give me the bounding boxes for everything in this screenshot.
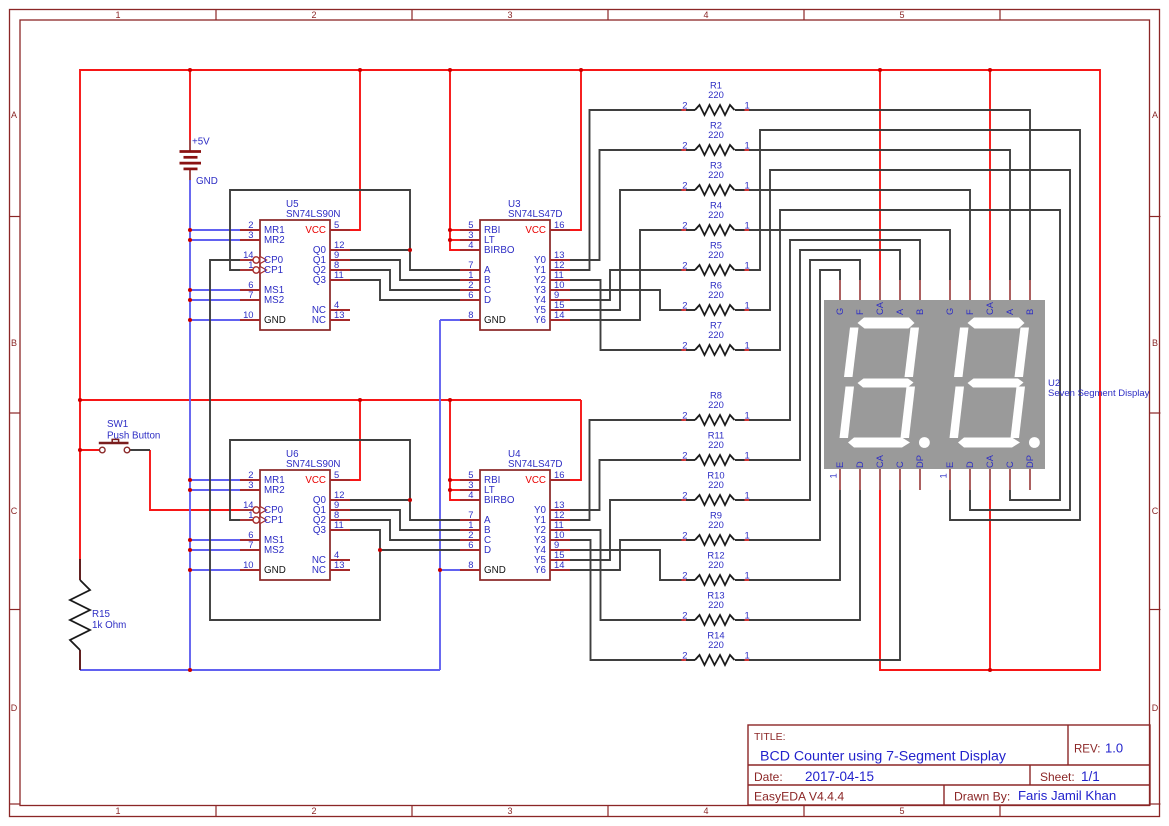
wire R3 to seg F right xyxy=(745,190,970,280)
pin 16 VCC of U3 xyxy=(525,219,570,236)
svg-text:Faris Jamil Khan: Faris Jamil Khan xyxy=(1018,788,1116,803)
svg-text:4: 4 xyxy=(703,10,708,20)
svg-text:1: 1 xyxy=(745,450,750,461)
svg-text:1.0: 1.0 xyxy=(1105,741,1123,756)
svg-text:220: 220 xyxy=(708,329,724,340)
svg-text:D: D xyxy=(11,703,18,713)
svg-text:220: 220 xyxy=(708,559,724,570)
svg-text:DP: DP xyxy=(915,455,925,468)
svg-text:SN74LS90N: SN74LS90N xyxy=(286,209,340,220)
pin 8 Q2 of U5 xyxy=(313,259,350,276)
junction (80,400) xyxy=(78,398,82,402)
pin 7 A of U3 xyxy=(460,259,491,276)
wire U6 VCC riser xyxy=(350,400,360,480)
svg-text:3: 3 xyxy=(507,10,512,20)
wire SW1 feed xyxy=(80,449,99,451)
svg-text:1: 1 xyxy=(745,340,750,351)
svg-text:1: 1 xyxy=(745,570,750,581)
pin 10 GND of U6 xyxy=(240,559,286,576)
svg-text:F: F xyxy=(855,309,865,315)
svg-text:220: 220 xyxy=(708,519,724,530)
svg-text:220: 220 xyxy=(708,399,724,410)
svg-text:2: 2 xyxy=(682,650,687,661)
svg-text:4: 4 xyxy=(468,239,473,250)
svg-text:220: 220 xyxy=(708,599,724,610)
pin 9 Y4 of U4 xyxy=(534,539,570,556)
svg-text:2: 2 xyxy=(682,180,687,191)
svg-text:+5V: +5V xyxy=(192,137,210,148)
junction (450,230) xyxy=(448,228,452,232)
wire U5 Q0-CP1 loop xyxy=(230,190,410,270)
wire U4 Y2 to R13 xyxy=(570,530,684,620)
pin 16 VCC of U4 xyxy=(525,469,570,486)
junction (190,230) xyxy=(188,228,192,232)
pin 10 Y3 of U4 xyxy=(534,529,570,546)
pin 2 MR1 of U6 xyxy=(240,469,285,486)
wire CA left top drop xyxy=(879,70,881,280)
wire U4 Y0 to R11 xyxy=(570,460,684,510)
pin 3 MR2 of U6 xyxy=(240,479,285,496)
pin 8 GND of U4 xyxy=(460,559,506,576)
pin 5 VCC of U6 xyxy=(305,469,350,486)
battery bottom stub xyxy=(189,169,191,181)
svg-text:11: 11 xyxy=(334,269,344,280)
pin 12 Q0 of U6 xyxy=(313,489,350,506)
svg-text:CP1: CP1 xyxy=(264,515,283,526)
wire R11 to seg A left xyxy=(745,250,900,460)
wire GND tap U5 MS2 xyxy=(190,299,240,301)
wire U3 VCC riser xyxy=(570,70,581,230)
svg-text:NC: NC xyxy=(312,315,326,326)
wire U5 Q2 to U3 C xyxy=(350,270,460,290)
svg-text:220: 220 xyxy=(708,439,724,450)
svg-text:1: 1 xyxy=(248,259,253,270)
svg-text:8: 8 xyxy=(468,309,473,320)
svg-text:2: 2 xyxy=(682,490,687,501)
resistor R13 220 xyxy=(682,590,750,626)
wire U3 LT tap xyxy=(450,239,460,241)
wire U5 VCC riser xyxy=(350,70,360,230)
svg-text:7: 7 xyxy=(248,539,253,550)
svg-text:CA: CA xyxy=(985,454,995,468)
svg-text:220: 220 xyxy=(708,169,724,180)
pin 15 Y5 of U3 xyxy=(534,299,570,316)
wire GND tap U6 MS2 xyxy=(190,549,240,551)
svg-text:VCC: VCC xyxy=(305,225,326,236)
pin 8 Q2 of U6 xyxy=(313,509,350,526)
pin 3 LT of U3 xyxy=(460,229,495,246)
svg-text:2: 2 xyxy=(682,450,687,461)
junction (990,70) xyxy=(988,68,992,72)
wire U4 Y1 to R8 xyxy=(570,420,684,520)
svg-text:GND: GND xyxy=(196,176,218,187)
svg-text:MR2: MR2 xyxy=(264,485,285,496)
wire R10 to seg F left xyxy=(745,260,860,500)
svg-text:6: 6 xyxy=(468,539,473,550)
svg-text:Q3: Q3 xyxy=(313,525,327,536)
svg-text:2: 2 xyxy=(682,610,687,621)
wire U4 Y6 to R9 xyxy=(570,540,684,570)
resistor R4 220 xyxy=(682,200,750,236)
svg-text:Y6: Y6 xyxy=(534,565,547,576)
wire GND tap U6 MS1 xyxy=(190,539,240,541)
junction (360,400) xyxy=(358,398,362,402)
pin 5 RBI of U3 xyxy=(460,219,500,236)
svg-text:2: 2 xyxy=(311,10,316,20)
pin 12 Q0 of U5 xyxy=(313,239,350,256)
svg-text:7: 7 xyxy=(248,289,253,300)
wire U4 RBI tap xyxy=(450,479,460,481)
wire U6 Q3 cascade to U5 CP0 xyxy=(210,260,380,620)
pin 10 Y3 of U3 xyxy=(534,279,570,296)
wire U6 Q0-CP1 loop xyxy=(230,440,410,520)
wire R2 to seg A right xyxy=(745,150,1010,280)
svg-text:1: 1 xyxy=(115,10,120,20)
svg-text:2: 2 xyxy=(682,100,687,111)
svg-text:2: 2 xyxy=(682,140,687,151)
svg-text:SN74LS90N: SN74LS90N xyxy=(286,459,340,470)
svg-text:1: 1 xyxy=(745,300,750,311)
svg-text:B: B xyxy=(11,338,17,348)
junction (190,490) xyxy=(188,488,192,492)
svg-text:1: 1 xyxy=(745,610,750,621)
svg-text:F: F xyxy=(965,309,975,315)
svg-text:GND: GND xyxy=(484,315,506,326)
svg-text:1: 1 xyxy=(745,180,750,191)
junction (450,70) xyxy=(448,68,452,72)
wire U4 Y4 to R12 xyxy=(570,550,684,580)
svg-text:CP1: CP1 xyxy=(264,265,283,276)
svg-text:1k Ohm: 1k Ohm xyxy=(92,620,126,631)
pin 6 MS1 of U5 xyxy=(240,279,284,296)
svg-text:220: 220 xyxy=(708,479,724,490)
svg-text:5: 5 xyxy=(334,469,339,480)
svg-text:2: 2 xyxy=(682,260,687,271)
IC U6 SN74LS90N body xyxy=(260,470,330,580)
wire U3 Y4 to R5 xyxy=(570,270,684,300)
wire U3 Y1 to R1 xyxy=(570,110,684,270)
svg-text:SW1: SW1 xyxy=(107,419,128,430)
svg-text:1: 1 xyxy=(745,530,750,541)
wire U4 Y5 to R10 xyxy=(570,500,684,560)
junction (190,570) xyxy=(188,568,192,572)
svg-text:5: 5 xyxy=(899,806,904,816)
svg-text:REV:: REV: xyxy=(1074,744,1100,756)
svg-text:BCD Counter using 7-Segment Di: BCD Counter using 7-Segment Display xyxy=(760,749,1007,765)
wire GND main vertical xyxy=(189,180,191,670)
svg-text:10: 10 xyxy=(243,309,253,320)
pin 9 Q1 of U6 xyxy=(313,499,350,516)
pin 15 Y5 of U4 xyxy=(534,549,570,566)
IC U4 SN74LS47D body xyxy=(480,470,550,580)
svg-text:1: 1 xyxy=(939,473,949,478)
svg-text:2: 2 xyxy=(682,340,687,351)
wire U3 Y0 to R2 xyxy=(570,150,684,260)
wire R12 to seg E left xyxy=(745,490,840,580)
svg-text:2017-04-15: 2017-04-15 xyxy=(805,769,874,784)
pin 4 BIRBO of U3 xyxy=(460,239,515,256)
junction (880,70) xyxy=(878,68,882,72)
wire GND tap U5 MS1 xyxy=(190,289,240,291)
svg-text:BIRBO: BIRBO xyxy=(484,495,515,506)
pin 7 A of U4 xyxy=(460,509,491,526)
junction (450,490) xyxy=(448,488,452,492)
svg-text:14: 14 xyxy=(554,559,564,570)
svg-text:1: 1 xyxy=(745,220,750,231)
wire U6 Q0 to U4 A xyxy=(350,500,460,520)
svg-text:Seven Segment Display: Seven Segment Display xyxy=(1048,388,1150,399)
wire U3 Y3 to R6 xyxy=(570,290,684,310)
svg-text:B: B xyxy=(915,309,925,315)
wire GND riser U3/U4 xyxy=(439,320,441,670)
svg-text:220: 220 xyxy=(708,209,724,220)
resistor R5 220 xyxy=(682,240,750,276)
junction (190,320) xyxy=(188,318,192,322)
wire R13 to seg D left xyxy=(745,490,860,620)
svg-text:VCC: VCC xyxy=(305,475,326,486)
wire U6 Q2 to U4 C xyxy=(350,520,460,540)
svg-text:Date:: Date: xyxy=(754,770,783,784)
svg-text:Sheet:: Sheet: xyxy=(1040,770,1075,784)
svg-text:14: 14 xyxy=(554,309,564,320)
pin 11 Y2 of U4 xyxy=(534,519,570,536)
svg-text:A: A xyxy=(11,110,17,120)
junction (440,570) xyxy=(438,568,442,572)
svg-text:3: 3 xyxy=(507,806,512,816)
svg-text:E: E xyxy=(945,462,955,468)
pin 11 Q3 of U5 xyxy=(313,269,350,286)
junction (190,240) xyxy=(188,238,192,242)
svg-text:1/1: 1/1 xyxy=(1081,769,1100,784)
svg-text:1: 1 xyxy=(248,509,253,520)
wire GND tap U5 GND xyxy=(190,319,240,321)
svg-text:4: 4 xyxy=(703,806,708,816)
resistor R15 1k Ohm xyxy=(70,559,90,670)
svg-text:5: 5 xyxy=(899,10,904,20)
pin 4 BIRBO of U4 xyxy=(460,489,515,506)
resistor R6 220 xyxy=(682,280,750,316)
pin 14 CP0 of U5 xyxy=(240,249,284,266)
svg-text:220: 220 xyxy=(708,289,724,300)
pin 10 GND of U5 xyxy=(240,309,286,326)
junction (190,550) xyxy=(188,548,192,552)
wire U5 Q1 to U3 B xyxy=(350,260,460,280)
junction (380,550) xyxy=(378,548,382,552)
pin 4 NC of U6 xyxy=(312,549,350,566)
pin 12 Y1 of U3 xyxy=(534,259,570,276)
resistor R3 220 xyxy=(682,160,750,196)
svg-text:E: E xyxy=(835,462,845,468)
svg-text:16: 16 xyxy=(554,469,564,480)
pin 7 MS2 of U6 xyxy=(240,539,284,556)
svg-text:Push Button: Push Button xyxy=(107,431,160,442)
wire U3 RBI tap xyxy=(450,229,460,231)
pin 5 RBI of U4 xyxy=(460,469,500,486)
pin 1 CP1 of U5 xyxy=(240,259,283,276)
svg-text:Q3: Q3 xyxy=(313,275,327,286)
IC U3 SN74LS47D body xyxy=(480,220,550,330)
svg-text:CA: CA xyxy=(875,301,885,315)
resistor R8 220 xyxy=(682,390,750,426)
display left digit segments xyxy=(840,318,930,448)
svg-text:GND: GND xyxy=(484,565,506,576)
pin 11 Q3 of U6 xyxy=(313,519,350,536)
wire U4 GND tap xyxy=(440,569,460,571)
wire R1 to seg B right xyxy=(745,110,1030,280)
resistor R1 220 xyxy=(682,80,750,116)
resistor R9 220 xyxy=(682,510,750,546)
pin 6 D of U4 xyxy=(460,539,491,556)
wire R7 to seg C right xyxy=(745,210,1060,500)
junction (190,670) xyxy=(188,668,192,672)
svg-text:220: 220 xyxy=(708,129,724,140)
pin 3 MR2 of U5 xyxy=(240,229,285,246)
resistor R10 220 xyxy=(682,470,750,506)
display bottom pin labels xyxy=(835,454,1035,468)
pin 2 C of U3 xyxy=(460,279,491,296)
pin 8 GND of U3 xyxy=(460,309,506,326)
display right digit segments xyxy=(950,318,1040,448)
svg-text:D: D xyxy=(1152,703,1159,713)
svg-text:1: 1 xyxy=(745,650,750,661)
wire SW1 output xyxy=(130,449,150,451)
pin 1 CP1 of U6 xyxy=(240,509,283,526)
wire U3 RBI/LT/BIRBO feed xyxy=(450,70,460,250)
pin 9 Q1 of U5 xyxy=(313,249,350,266)
svg-text:2: 2 xyxy=(682,530,687,541)
svg-text:5: 5 xyxy=(334,219,339,230)
svg-text:Y6: Y6 xyxy=(534,315,547,326)
junction (450,240) xyxy=(448,238,452,242)
wire SW1 to U6 CP0 xyxy=(150,450,240,510)
pin 9 Y4 of U3 xyxy=(534,289,570,306)
svg-text:3: 3 xyxy=(248,479,253,490)
svg-text:Drawn By:: Drawn By: xyxy=(954,790,1010,804)
pin 14 Y6 of U4 xyxy=(534,559,570,576)
svg-text:A: A xyxy=(1152,110,1158,120)
display U2 body xyxy=(824,300,1045,469)
junction (190,480) xyxy=(188,478,192,482)
svg-text:A: A xyxy=(895,308,905,315)
pin 7 MS2 of U5 xyxy=(240,289,284,306)
wire R6 to seg D right xyxy=(745,170,1070,510)
pin 6 MS1 of U6 xyxy=(240,529,284,546)
pin 2 MR1 of U5 xyxy=(240,219,285,236)
wire GND tap U5 MR2 xyxy=(190,239,240,241)
svg-text:16: 16 xyxy=(554,219,564,230)
resistor R12 220 xyxy=(682,550,750,586)
svg-text:2: 2 xyxy=(682,570,687,581)
svg-text:220: 220 xyxy=(708,89,724,100)
svg-text:13: 13 xyxy=(334,559,344,570)
svg-text:1: 1 xyxy=(745,100,750,111)
pin 1 B of U4 xyxy=(460,519,491,536)
svg-text:G: G xyxy=(835,308,845,315)
svg-text:1: 1 xyxy=(829,473,839,478)
svg-text:BIRBO: BIRBO xyxy=(484,245,515,256)
switch SW1 xyxy=(99,439,130,452)
svg-text:1: 1 xyxy=(745,490,750,501)
svg-text:1: 1 xyxy=(115,806,120,816)
svg-text:D: D xyxy=(484,295,491,306)
junction (990,670) xyxy=(988,668,992,672)
wire R8 to seg B left xyxy=(745,240,920,420)
pin 6 D of U3 xyxy=(460,289,491,306)
pin 13 NC of U5 xyxy=(312,309,350,326)
svg-text:1: 1 xyxy=(745,410,750,421)
svg-text:GND: GND xyxy=(264,315,286,326)
wire GND tap U6 GND xyxy=(190,569,240,571)
svg-text:4: 4 xyxy=(468,489,473,500)
svg-text:TITLE:: TITLE: xyxy=(754,731,786,743)
svg-text:8: 8 xyxy=(468,559,473,570)
wire GND tap U6 MR2 xyxy=(190,489,240,491)
wire CA right top drop xyxy=(989,70,991,280)
junction (190,290) xyxy=(188,288,192,292)
wire U5 Q3 to U3 D xyxy=(350,280,460,300)
pin 11 Y2 of U3 xyxy=(534,269,570,286)
svg-text:D: D xyxy=(484,545,491,556)
svg-text:2: 2 xyxy=(682,220,687,231)
wire U4 LT tap xyxy=(450,489,460,491)
pin 12 Y1 of U4 xyxy=(534,509,570,526)
svg-text:B: B xyxy=(1025,309,1035,315)
wire GND bottom bus xyxy=(80,669,440,671)
junction (190,540) xyxy=(188,538,192,542)
pin 13 Y0 of U3 xyxy=(534,249,570,266)
svg-text:13: 13 xyxy=(334,309,344,320)
pin 4 NC of U5 xyxy=(312,299,350,316)
svg-text:VCC: VCC xyxy=(525,225,546,236)
battery +5V symbol xyxy=(180,152,202,169)
wire mid VCC rail xyxy=(80,399,581,401)
svg-text:NC: NC xyxy=(312,565,326,576)
svg-text:MR2: MR2 xyxy=(264,235,285,246)
resistor R14 220 xyxy=(682,630,750,666)
svg-text:220: 220 xyxy=(708,249,724,260)
resistor R7 220 xyxy=(682,320,750,356)
svg-text:R15: R15 xyxy=(92,609,111,620)
pin 14 Y6 of U3 xyxy=(534,309,570,326)
svg-text:2: 2 xyxy=(682,300,687,311)
display top pin labels xyxy=(835,301,1035,315)
svg-text:C: C xyxy=(11,506,18,516)
pin 13 NC of U6 xyxy=(312,559,350,576)
junction (410,250) xyxy=(408,248,412,252)
resistor R11 220 xyxy=(682,430,750,466)
svg-text:B: B xyxy=(1152,338,1158,348)
svg-text:220: 220 xyxy=(708,639,724,650)
wire U3 Y5 to R3 xyxy=(570,190,684,310)
pin 2 C of U4 xyxy=(460,529,491,546)
IC U5 SN74LS90N body xyxy=(260,220,330,330)
svg-text:10: 10 xyxy=(243,559,253,570)
junction (80,450) xyxy=(78,448,82,452)
svg-text:CA: CA xyxy=(985,301,995,315)
wire R9 to seg G left xyxy=(745,270,840,540)
wire GND tap U6 MR1 xyxy=(190,479,240,481)
battery top stub xyxy=(189,140,191,152)
svg-text:2: 2 xyxy=(682,410,687,421)
wire +5V battery drop xyxy=(189,70,191,140)
wire R14 to seg C left xyxy=(745,490,900,660)
svg-text:1: 1 xyxy=(745,140,750,151)
display pin stubs xyxy=(840,280,1030,490)
svg-text:D: D xyxy=(965,461,975,468)
svg-text:2: 2 xyxy=(311,806,316,816)
pin 13 Y0 of U4 xyxy=(534,499,570,516)
junction (450,400) xyxy=(448,398,452,402)
